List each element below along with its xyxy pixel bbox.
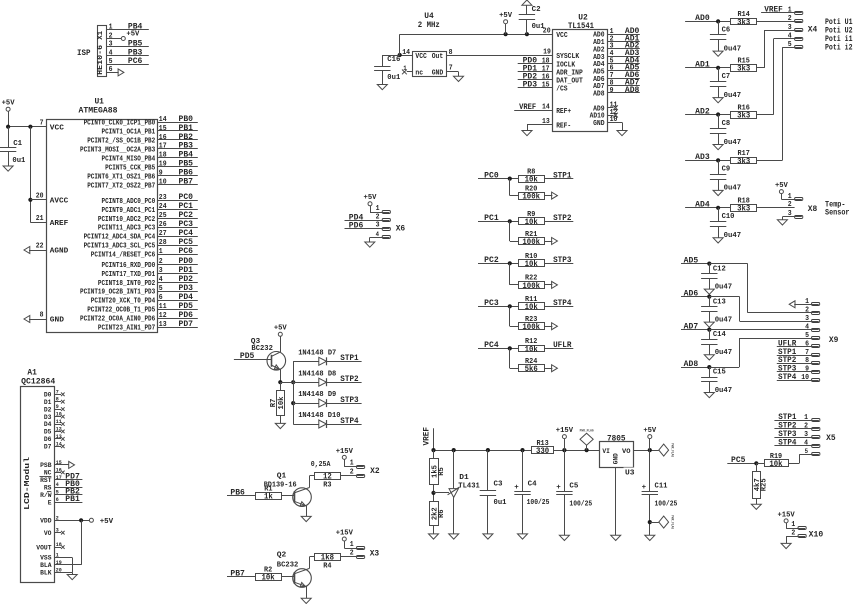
svg-text:STP1: STP1 [553,171,571,180]
svg-text:0u47: 0u47 [715,316,733,324]
svg-text:PB3: PB3 [179,142,194,151]
svg-text:PC6: PC6 [179,247,194,256]
svg-text:5k6: 5k6 [525,366,538,374]
svg-text:3: 3 [159,267,163,275]
svg-text:ATMEGA88: ATMEGA88 [79,106,118,115]
svg-text:+15V: +15V [556,427,574,435]
svg-text:12: 12 [323,474,332,482]
svg-text:AGND: AGND [50,248,69,256]
svg-text:PCINT20_XCK_T0_PD4: PCINT20_XCK_T0_PD4 [91,298,156,306]
svg-text:0u47: 0u47 [724,45,742,53]
svg-text:11: 11 [56,418,62,425]
svg-text:R16: R16 [738,104,750,112]
svg-text:PC2: PC2 [484,256,499,265]
svg-text:+5V: +5V [643,427,656,435]
svg-text:D1: D1 [459,474,469,482]
svg-text:18: 18 [542,58,550,66]
svg-text:R9: R9 [527,211,535,219]
svg-text:100/25: 100/25 [655,501,678,509]
svg-text:2: 2 [159,258,163,266]
svg-text:AD8: AD8 [625,86,640,95]
svg-text:C9: C9 [722,166,731,174]
svg-text:R8: R8 [527,168,535,176]
svg-text:GND: GND [50,317,65,325]
svg-text:R15: R15 [738,58,750,66]
svg-text:10k: 10k [525,177,538,185]
svg-text:10k: 10k [278,396,286,409]
svg-text:+: + [642,484,647,492]
svg-text:C1: C1 [13,140,22,148]
svg-text:C7: C7 [722,73,731,81]
svg-text:PCINT19_OC2B_INT1_PD3: PCINT19_OC2B_INT1_PD3 [80,289,156,297]
svg-text:4: 4 [788,32,792,40]
svg-text:3: 3 [376,221,380,229]
svg-text:28: 28 [159,239,167,247]
svg-text:17: 17 [542,66,550,74]
svg-text:UFLR: UFLR [553,341,571,350]
svg-text:100/25: 100/25 [569,501,592,509]
svg-text:TL431: TL431 [458,482,480,490]
svg-text:C11: C11 [655,482,668,490]
svg-text:+: + [514,484,519,492]
svg-text:U3: U3 [625,469,635,477]
svg-text:R22: R22 [525,275,537,283]
svg-text:0u47: 0u47 [724,92,742,100]
svg-text:VO: VO [622,448,631,455]
svg-text:PCINT2_/SS_OC1B_PB2: PCINT2_/SS_OC1B_PB2 [87,137,155,145]
svg-text:4: 4 [805,324,809,332]
svg-text:2: 2 [804,423,808,431]
svg-text:27: 27 [159,230,167,238]
svg-text:8: 8 [40,312,44,320]
svg-text:R7: R7 [270,399,278,408]
svg-text:13: 13 [542,118,550,126]
svg-text:PC3: PC3 [179,220,194,229]
svg-text:3k3: 3k3 [737,112,750,120]
svg-text:+15V: +15V [336,448,354,456]
svg-text:D6: D6 [44,436,52,443]
svg-text:4: 4 [376,231,379,238]
svg-text:0u47: 0u47 [715,283,733,291]
svg-text:PD3: PD3 [179,284,194,293]
svg-text:0u1: 0u1 [387,74,400,82]
svg-text:PC1: PC1 [179,202,194,211]
svg-text:14: 14 [159,116,167,124]
svg-text:10k: 10k [769,461,782,469]
svg-text:PCINT9_ADC1_PC1: PCINT9_ADC1_PC1 [102,207,156,215]
svg-text:26: 26 [159,221,167,229]
svg-text:STP1: STP1 [340,354,358,363]
svg-text:4: 4 [804,440,808,448]
svg-text:3k3: 3k3 [737,158,750,166]
svg-text:AD8: AD8 [684,360,699,369]
svg-text:0u1: 0u1 [12,157,25,165]
svg-text:RS: RS [44,484,52,491]
svg-text:330: 330 [536,448,549,456]
svg-text:3: 3 [109,41,113,49]
svg-text:18: 18 [159,152,167,160]
svg-text:BLA: BLA [40,562,51,569]
svg-text:0u47: 0u47 [724,232,742,240]
svg-text:14: 14 [542,103,550,111]
svg-text:13: 13 [159,321,167,329]
svg-text:10k: 10k [525,346,538,354]
svg-text:PD0: PD0 [179,257,194,266]
svg-text:0u47: 0u47 [724,185,742,193]
svg-text:GND: GND [593,120,605,128]
svg-text:D3: D3 [44,414,52,421]
svg-text:PB1: PB1 [179,124,194,133]
svg-text:X6: X6 [396,224,406,233]
svg-text:STP3: STP3 [340,396,358,405]
svg-text:0u1: 0u1 [494,499,507,507]
svg-text:VO: VO [44,530,52,537]
svg-text:10k: 10k [262,574,275,582]
svg-text:6: 6 [159,294,163,302]
svg-text:GND: GND [432,70,444,78]
svg-text:VI: VI [602,448,610,455]
svg-text:PWR_FLAG: PWR_FLAG [580,429,594,433]
svg-text:PD4: PD4 [179,293,194,302]
svg-text:BLK: BLK [40,570,51,577]
svg-text:A1: A1 [27,368,37,377]
svg-text:PB5: PB5 [179,160,194,169]
svg-text:PB7: PB7 [179,178,194,187]
svg-text:PCINT14_/RESET_PC6: PCINT14_/RESET_PC6 [91,252,156,260]
svg-text:PCINT0_CLK0_ICP1_PB0: PCINT0_CLK0_ICP1_PB0 [84,119,156,127]
svg-text:PD3: PD3 [523,81,538,90]
svg-text:100k: 100k [522,194,540,202]
svg-text:VCC: VCC [556,32,568,40]
svg-text:U4: U4 [424,12,434,21]
svg-text:25: 25 [159,212,167,220]
svg-text:STP4: STP4 [553,299,571,308]
svg-text:HE10-6: HE10-6 [97,44,105,75]
svg-text:1: 1 [376,205,380,213]
svg-text:X4: X4 [808,25,818,34]
svg-text:Sensor: Sensor [825,209,850,218]
svg-text:C12: C12 [713,265,726,273]
svg-text:U2: U2 [578,13,588,22]
svg-text:VREF: VREF [519,103,536,112]
svg-text:PCINT12_ADC4_SDA_PC4: PCINT12_ADC4_SDA_PC4 [84,234,156,242]
svg-text:19: 19 [543,48,551,56]
svg-text:REF-: REF- [556,122,571,130]
svg-text:AD5: AD5 [684,256,699,265]
svg-text:PCINT18_INT0_PD2: PCINT18_INT0_PD2 [98,280,155,288]
svg-text:PCINT13_ADC3_SCL_PC5: PCINT13_ADC3_SCL_PC5 [84,243,156,251]
svg-text:15: 15 [542,82,550,90]
svg-text:0u47: 0u47 [724,139,742,147]
svg-text:C2: C2 [532,6,541,14]
svg-text:PD5: PD5 [179,302,194,311]
svg-text:STP2: STP2 [553,214,571,223]
svg-text:BC232: BC232 [251,345,273,353]
svg-text:100/25: 100/25 [527,499,550,507]
svg-text:PB2: PB2 [179,133,194,142]
svg-text:4: 4 [159,276,163,284]
svg-text:3: 3 [804,431,808,439]
svg-text:R23: R23 [525,316,537,324]
svg-text:1: 1 [109,24,113,32]
svg-text:PC0: PC0 [484,171,499,180]
svg-text:+5V: +5V [126,30,139,38]
svg-text:VOUT: VOUT [36,544,51,551]
svg-text:X8: X8 [808,205,818,214]
svg-text:PB5: PB5 [128,40,143,49]
svg-text:20: 20 [543,27,551,35]
svg-text:R17: R17 [738,150,750,158]
svg-text:Q1: Q1 [277,473,287,481]
svg-text:9: 9 [805,366,809,374]
svg-text:R14: R14 [738,11,750,19]
svg-text:14: 14 [402,49,410,57]
svg-text:PB4: PB4 [179,151,194,160]
svg-text:AD6: AD6 [684,289,699,298]
svg-text:C5: C5 [569,482,578,490]
svg-text:BC232: BC232 [277,561,299,569]
svg-text:PD7: PD7 [179,320,194,329]
svg-text:3k3: 3k3 [737,206,750,214]
svg-text:+: + [556,484,561,492]
svg-text:C6: C6 [722,26,731,34]
svg-text:PB1: PB1 [65,495,80,504]
svg-text:D7: D7 [44,444,52,451]
svg-text:2: 2 [788,201,792,209]
svg-text:19: 19 [159,161,167,169]
svg-text:STP4: STP4 [778,373,796,382]
svg-text:PCINT1_OC1A_PB1: PCINT1_OC1A_PB1 [102,128,156,136]
svg-text:R20: R20 [525,185,537,193]
svg-text:ADR_INP: ADR_INP [556,69,583,77]
svg-text:1k8: 1k8 [321,555,334,563]
svg-text:AD2: AD2 [695,107,710,116]
svg-text:D0: D0 [44,392,52,399]
svg-text:DAT_OUT: DAT_OUT [556,77,583,85]
svg-text:23: 23 [159,194,167,202]
svg-text:7805: 7805 [607,435,626,444]
svg-text:3k3: 3k3 [737,19,750,27]
svg-text:+5V: +5V [775,182,788,190]
svg-text:1N4148 D10: 1N4148 D10 [298,412,341,420]
svg-text:D5: D5 [44,429,52,436]
svg-text:STP4: STP4 [778,439,796,448]
svg-text:VSS: VSS [40,555,51,562]
svg-text:+5V: +5V [499,12,512,20]
svg-text:22: 22 [36,243,44,251]
svg-text:LCD-Modul: LCD-Modul [24,456,32,510]
svg-text:2 MHz: 2 MHz [418,21,440,30]
svg-text:AD7: AD7 [684,322,699,331]
svg-text:R10: R10 [525,253,537,261]
svg-text:D1: D1 [44,399,52,406]
svg-text:C8: C8 [722,120,731,128]
svg-text:PWR_FLAG: PWR_FLAG [670,443,674,457]
svg-text:PCINT22_OC0B_T1_PD5: PCINT22_OC0B_T1_PD5 [87,307,155,315]
svg-text:R13: R13 [536,440,548,448]
svg-text:X3: X3 [370,549,380,558]
svg-text:1: 1 [804,414,808,422]
svg-text:1N4148 D9: 1N4148 D9 [298,391,337,399]
svg-text:ISP: ISP [77,49,91,58]
svg-text:AD4: AD4 [695,201,710,210]
svg-text:PCINT4_MISO_PB4: PCINT4_MISO_PB4 [102,155,156,163]
svg-text:RST: RST [40,477,51,484]
svg-text:PCINT8_ADC0_PC0: PCINT8_ADC0_PC0 [102,198,156,206]
svg-text:PB7: PB7 [230,569,245,578]
svg-text:U1: U1 [94,98,104,107]
svg-text:VCC: VCC [50,125,65,133]
svg-text:1: 1 [788,7,792,15]
svg-text:C14: C14 [713,331,726,339]
svg-text:PCINT10_ADC2_PC2: PCINT10_ADC2_PC2 [98,216,155,224]
svg-text:AD8: AD8 [593,91,605,99]
svg-text:C4: C4 [528,480,537,488]
svg-text:100k: 100k [522,324,540,332]
svg-text:15: 15 [159,125,167,133]
svg-text:10k: 10k [525,304,538,312]
svg-text:10: 10 [159,179,167,187]
svg-text:AD1: AD1 [695,61,710,70]
svg-text:PD6: PD6 [349,221,364,230]
svg-text:C3: C3 [494,480,503,488]
svg-text:PB6: PB6 [179,169,194,178]
svg-text:PCINT3_MOSI__OC2A_PB3: PCINT3_MOSI__OC2A_PB3 [80,146,156,154]
svg-text:3k3: 3k3 [737,66,750,74]
svg-text:0u47: 0u47 [715,349,733,357]
svg-text:0u47: 0u47 [715,387,733,395]
svg-text:16: 16 [542,74,550,82]
svg-text:C13: C13 [713,298,726,306]
svg-text:PCINT22_OC0A_AIN0_PD6: PCINT22_OC0A_AIN0_PD6 [80,316,156,324]
svg-text:PCINT6_XT1_OSZ1_PB6: PCINT6_XT1_OSZ1_PB6 [87,173,155,181]
svg-text:X10: X10 [809,530,824,539]
svg-text:PSB: PSB [40,462,51,469]
svg-text:+5V: +5V [364,194,377,202]
svg-text:PD6: PD6 [179,311,194,320]
svg-text:R24: R24 [525,358,537,366]
svg-text:10: 10 [610,116,618,124]
svg-text:+15V: +15V [778,511,796,519]
svg-text:E: E [48,499,52,506]
svg-text:PC5: PC5 [179,238,194,247]
svg-text:/CS: /CS [556,85,568,93]
svg-text:R25: R25 [761,478,769,491]
svg-text:GND: GND [613,453,620,464]
svg-text:PC5: PC5 [731,456,746,465]
svg-text:PCINT11_ADC3_PC3: PCINT11_ADC3_PC3 [98,225,156,233]
svg-text:PCINT17_TXD_PD1: PCINT17_TXD_PD1 [102,271,156,279]
svg-text:5: 5 [109,58,113,66]
svg-text:1N4148 D8: 1N4148 D8 [298,370,337,378]
svg-text:1: 1 [403,65,406,72]
svg-text:PC6: PC6 [128,57,143,66]
svg-text:R/W: R/W [40,492,51,499]
svg-text:+5V: +5V [100,518,114,526]
svg-text:C15: C15 [713,369,726,377]
svg-text:VREF: VREF [423,427,432,446]
svg-text:100k: 100k [522,239,540,247]
svg-text:PB6: PB6 [230,489,245,498]
svg-text:PC1: PC1 [484,214,499,223]
svg-text:1: 1 [791,521,795,529]
svg-text:10k: 10k [525,219,538,227]
svg-text:QC12864: QC12864 [21,378,55,387]
svg-text:PWR_FLAG: PWR_FLAG [670,515,674,529]
svg-text:REF+: REF+ [556,108,571,116]
svg-text:X2: X2 [370,467,380,476]
svg-text:R3: R3 [323,481,331,489]
svg-text:2: 2 [109,32,113,40]
svg-text:1k: 1k [264,494,273,502]
svg-text:STP2: STP2 [340,375,358,384]
svg-text:VDD: VDD [40,518,51,525]
svg-text:R2: R2 [264,566,272,574]
svg-text:R4: R4 [323,562,331,570]
svg-text:1: 1 [159,248,163,256]
svg-text:R19: R19 [770,453,782,461]
svg-text:0,25A: 0,25A [311,461,331,469]
svg-text:C10: C10 [722,213,735,221]
svg-text:X9: X9 [829,336,839,345]
svg-text:R11: R11 [525,296,537,304]
svg-text:9: 9 [159,170,163,178]
svg-text:PCINT16_RXD_PD0: PCINT16_RXD_PD0 [102,262,156,270]
svg-text:2: 2 [805,307,809,315]
svg-text:100k: 100k [522,283,540,291]
svg-text:2: 2 [376,213,380,221]
svg-text:PD2: PD2 [179,275,194,284]
svg-text:X1: X1 [97,30,105,39]
svg-text:PC0: PC0 [179,193,194,202]
svg-text:R12: R12 [525,338,537,346]
svg-text:Out: Out [432,53,444,61]
svg-text:PD5: PD5 [240,352,255,361]
svg-text:12: 12 [159,312,167,320]
svg-text:SYSCLK: SYSCLK [556,53,579,61]
svg-text:R21: R21 [525,231,537,239]
svg-text:D2: D2 [44,406,52,413]
svg-text:9: 9 [610,87,614,95]
svg-text:PC4: PC4 [484,341,499,350]
svg-text:5: 5 [159,285,163,293]
svg-text:24: 24 [159,203,167,211]
svg-text:+15V: +15V [336,529,354,537]
svg-text:PC2: PC2 [179,211,194,220]
svg-text:1N4148 D7: 1N4148 D7 [298,349,336,357]
svg-text:X5: X5 [826,434,836,443]
svg-text:D4: D4 [44,421,52,428]
svg-text:16: 16 [159,134,167,142]
svg-text:6: 6 [805,340,809,348]
svg-text:R18: R18 [738,198,750,206]
svg-text:+5V: +5V [274,325,287,333]
svg-text:PC3: PC3 [484,299,499,308]
svg-text:6: 6 [109,66,113,74]
svg-text:PCINT7_XT2_OSZ2_PB7: PCINT7_XT2_OSZ2_PB7 [87,182,155,190]
svg-text:IOCLK: IOCLK [556,61,575,69]
svg-text:C16: C16 [387,56,400,64]
svg-text:PCINT23_AIN1_PD7: PCINT23_AIN1_PD7 [98,325,155,333]
svg-text:nc: nc [415,70,423,78]
svg-text:1: 1 [350,541,354,549]
svg-text:+5V: +5V [2,100,15,108]
svg-text:R6: R6 [438,509,446,518]
svg-text:PB0: PB0 [179,115,194,124]
svg-text:R5: R5 [438,467,446,476]
svg-text:TL1541: TL1541 [568,22,594,31]
svg-text:VCC: VCC [415,53,427,61]
